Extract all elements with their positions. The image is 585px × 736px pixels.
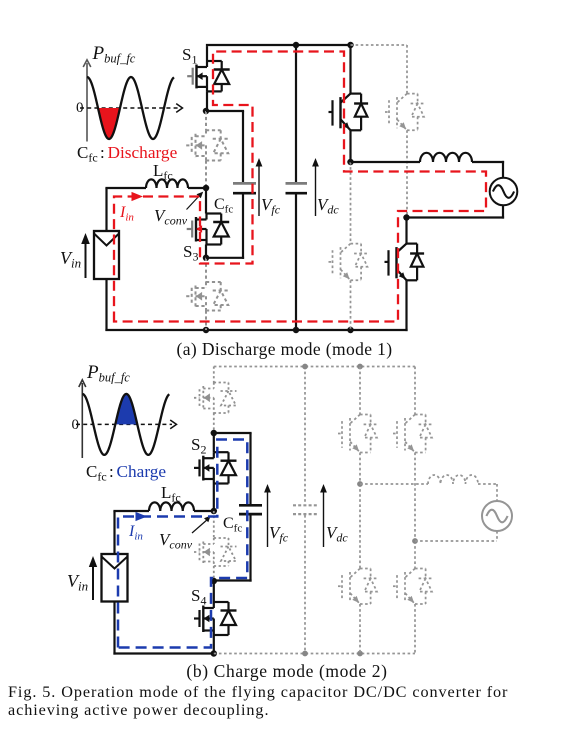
label C_fc : Discharge xyxy=(77,143,178,165)
capacitor Cfc (b) plates xyxy=(239,505,262,514)
igbt bridge top-left (b, grey) xyxy=(338,367,378,485)
node Vconv (a) xyxy=(203,185,210,192)
grey ac source (b) xyxy=(482,501,512,531)
mosfet S2 (b, on) xyxy=(194,433,237,511)
label P_buf_fc (a) xyxy=(92,43,136,66)
svg-text:Fig. 5. Operation mode of the: Fig. 5. Operation mode of the flying cap… xyxy=(8,683,508,701)
inductor Lfc (b) xyxy=(149,502,194,511)
igbt bridge bottom-right (a, on) xyxy=(385,218,425,332)
source Vin (a): PV input source xyxy=(94,231,119,279)
label 0 (a) xyxy=(76,100,84,116)
label Cfc (b) xyxy=(223,515,242,535)
grey wire ac bottom (b) xyxy=(415,531,497,541)
label Vfc (b) with arrow xyxy=(264,484,289,547)
wire filter to ac source (a) xyxy=(472,161,504,177)
label Vin (a) with arrow xyxy=(60,233,90,278)
svg-text:(a) Discharge mode (mode 1): (a) Discharge mode (mode 1) xyxy=(177,339,393,359)
red discharge current loop (a) xyxy=(114,52,486,322)
capacitor Cfc (a) plates xyxy=(233,183,256,193)
svg-text:0: 0 xyxy=(76,100,84,116)
node top rail DC link (a) xyxy=(293,42,300,49)
node bridge leg bottom (a) xyxy=(347,327,354,334)
grey node bottom rail dc (b) xyxy=(302,651,308,657)
label Lfc (a) xyxy=(153,161,173,183)
node S3-S4 junction (b) xyxy=(211,578,218,585)
inductor Lfc (a) xyxy=(146,179,188,188)
label S2 xyxy=(191,435,206,457)
svg-text:Discharge: Discharge xyxy=(108,143,178,162)
waveform plot (a): zero dashed axis xyxy=(80,104,183,113)
igbt bridge bottom-left (a, off grey) xyxy=(329,162,369,330)
figure caption line 2 xyxy=(8,701,269,719)
figure caption line 1 xyxy=(8,683,508,701)
red Iin arrow (a) xyxy=(119,192,143,224)
wire Vin bottom to rail (b) xyxy=(113,601,115,655)
label Vdc (a) with arrow xyxy=(312,158,339,217)
node DC rail bottom (a) xyxy=(293,327,300,334)
waveform plot (b): zero dashed axis xyxy=(76,420,177,429)
grey wire bridge output (b) xyxy=(360,483,428,485)
node top rail bridge (a) xyxy=(347,42,354,49)
grey node bridge right mid (b) xyxy=(412,538,418,544)
node S3-S4 junction (a) xyxy=(203,255,210,262)
wire Vin bottom to rail (a) xyxy=(105,278,107,331)
wire Vin top to Lfc (a) xyxy=(105,188,146,232)
capacitor Cfc (b) wires xyxy=(214,433,252,582)
label Vconv (a) with pointer xyxy=(154,192,203,228)
svg-text:Charge: Charge xyxy=(117,462,167,481)
igbt bridge bottom-left (b, grey) xyxy=(338,484,378,654)
wire bottom rail (a) xyxy=(105,329,407,331)
mosfet S4 (b, on) xyxy=(194,581,237,654)
igbt bridge top-right (a, off grey) xyxy=(351,45,425,218)
label S4 xyxy=(191,586,206,608)
svg-text::: : xyxy=(109,462,114,481)
caption (a) xyxy=(177,339,393,359)
igbt bridge bottom-right (b, grey) xyxy=(393,541,433,654)
wire top rail (a) xyxy=(206,45,351,61)
waveform plot (a): sine curve with red discharge fill xyxy=(87,77,174,139)
label S3 xyxy=(183,242,198,264)
wire bridge output top (a) xyxy=(351,161,421,163)
svg-text::: : xyxy=(100,143,105,162)
capacitor Cfc (a) wires xyxy=(206,111,244,259)
blue charge current loop (b) xyxy=(118,440,247,648)
svg-text:achieving active power decoupl: achieving active power decoupling. xyxy=(8,701,269,719)
mosfet S1 (b, off grey) xyxy=(194,367,237,434)
grey node top rail dc (b) xyxy=(302,364,308,370)
wire ac source bottom (a) xyxy=(405,206,504,219)
igbt bridge top-right (b, grey) xyxy=(393,367,433,542)
grey bottom rail (b) xyxy=(214,653,415,655)
grey node top rail bridge (b) xyxy=(357,364,363,370)
label Vconv (b) with pointer xyxy=(159,516,211,552)
svg-text:(b) Charge mode (mode 2): (b) Charge mode (mode 2) xyxy=(186,661,387,681)
label Vdc (b) with arrow xyxy=(320,484,348,547)
svg-text:0: 0 xyxy=(72,417,80,433)
igbt bridge top-left (a, on) xyxy=(329,45,369,162)
node Vconv (b) xyxy=(211,508,218,515)
caption (b) xyxy=(186,661,387,681)
mosfet S3 (a, on, red current arrow) xyxy=(187,188,230,258)
waveform plot (b): sine curve with blue charge fill xyxy=(82,394,169,455)
label Vin (b) with arrow xyxy=(67,556,97,600)
wire Vin top to Lfc (b) xyxy=(113,511,149,555)
mosfet S4 (a, off grey) xyxy=(186,258,229,330)
capacitor DC link (a) rail and plates xyxy=(286,45,308,330)
label Cfc (a) xyxy=(214,196,233,216)
grey inductor grid filter (b) xyxy=(428,475,478,484)
mosfet S2 (a, off grey) xyxy=(186,111,229,188)
waveform plot (a): P_buf_fc axis xyxy=(83,60,91,142)
grey top rail (b) xyxy=(214,366,415,368)
grey wire filter to ac (b) xyxy=(478,484,497,501)
DC rail grey (b) with capacitor xyxy=(293,367,317,654)
label S1 xyxy=(182,45,197,67)
label P_buf_fc (b) xyxy=(86,362,130,385)
label C_fc : Charge xyxy=(86,462,166,484)
node S4 leg bottom (b) xyxy=(211,650,218,657)
node S4 leg bottom (a) xyxy=(203,327,210,334)
ac source (a) xyxy=(490,178,518,206)
waveform plot (b): P_buf_fc axis xyxy=(79,380,86,458)
label Lfc (b) xyxy=(161,483,181,505)
node bridge left mid (a) xyxy=(347,159,354,166)
mosfet S3 (b, off grey) xyxy=(194,511,237,581)
label 0 (b) xyxy=(72,417,80,433)
grey node bottom rail bridge (b) xyxy=(357,651,363,657)
node bridge right mid (a) xyxy=(403,214,410,221)
wire bottom rail black (b) xyxy=(113,652,213,654)
node S1-S2 junction (a) xyxy=(203,108,210,115)
mosfet S1 (a, on) xyxy=(187,61,230,111)
grey node bridge left mid (b) xyxy=(357,481,363,487)
source Vin (b): PV input source xyxy=(102,554,128,602)
blue Iin arrow (b) xyxy=(128,512,147,543)
node S1-S2 junction (b) xyxy=(211,430,218,437)
inductor grid filter (a) xyxy=(420,153,472,162)
label Vfc (a) with arrow xyxy=(256,158,281,217)
wire Lfc to node Vconv (a) xyxy=(188,187,206,189)
wire Lfc to node Vconv (b) xyxy=(194,510,214,512)
